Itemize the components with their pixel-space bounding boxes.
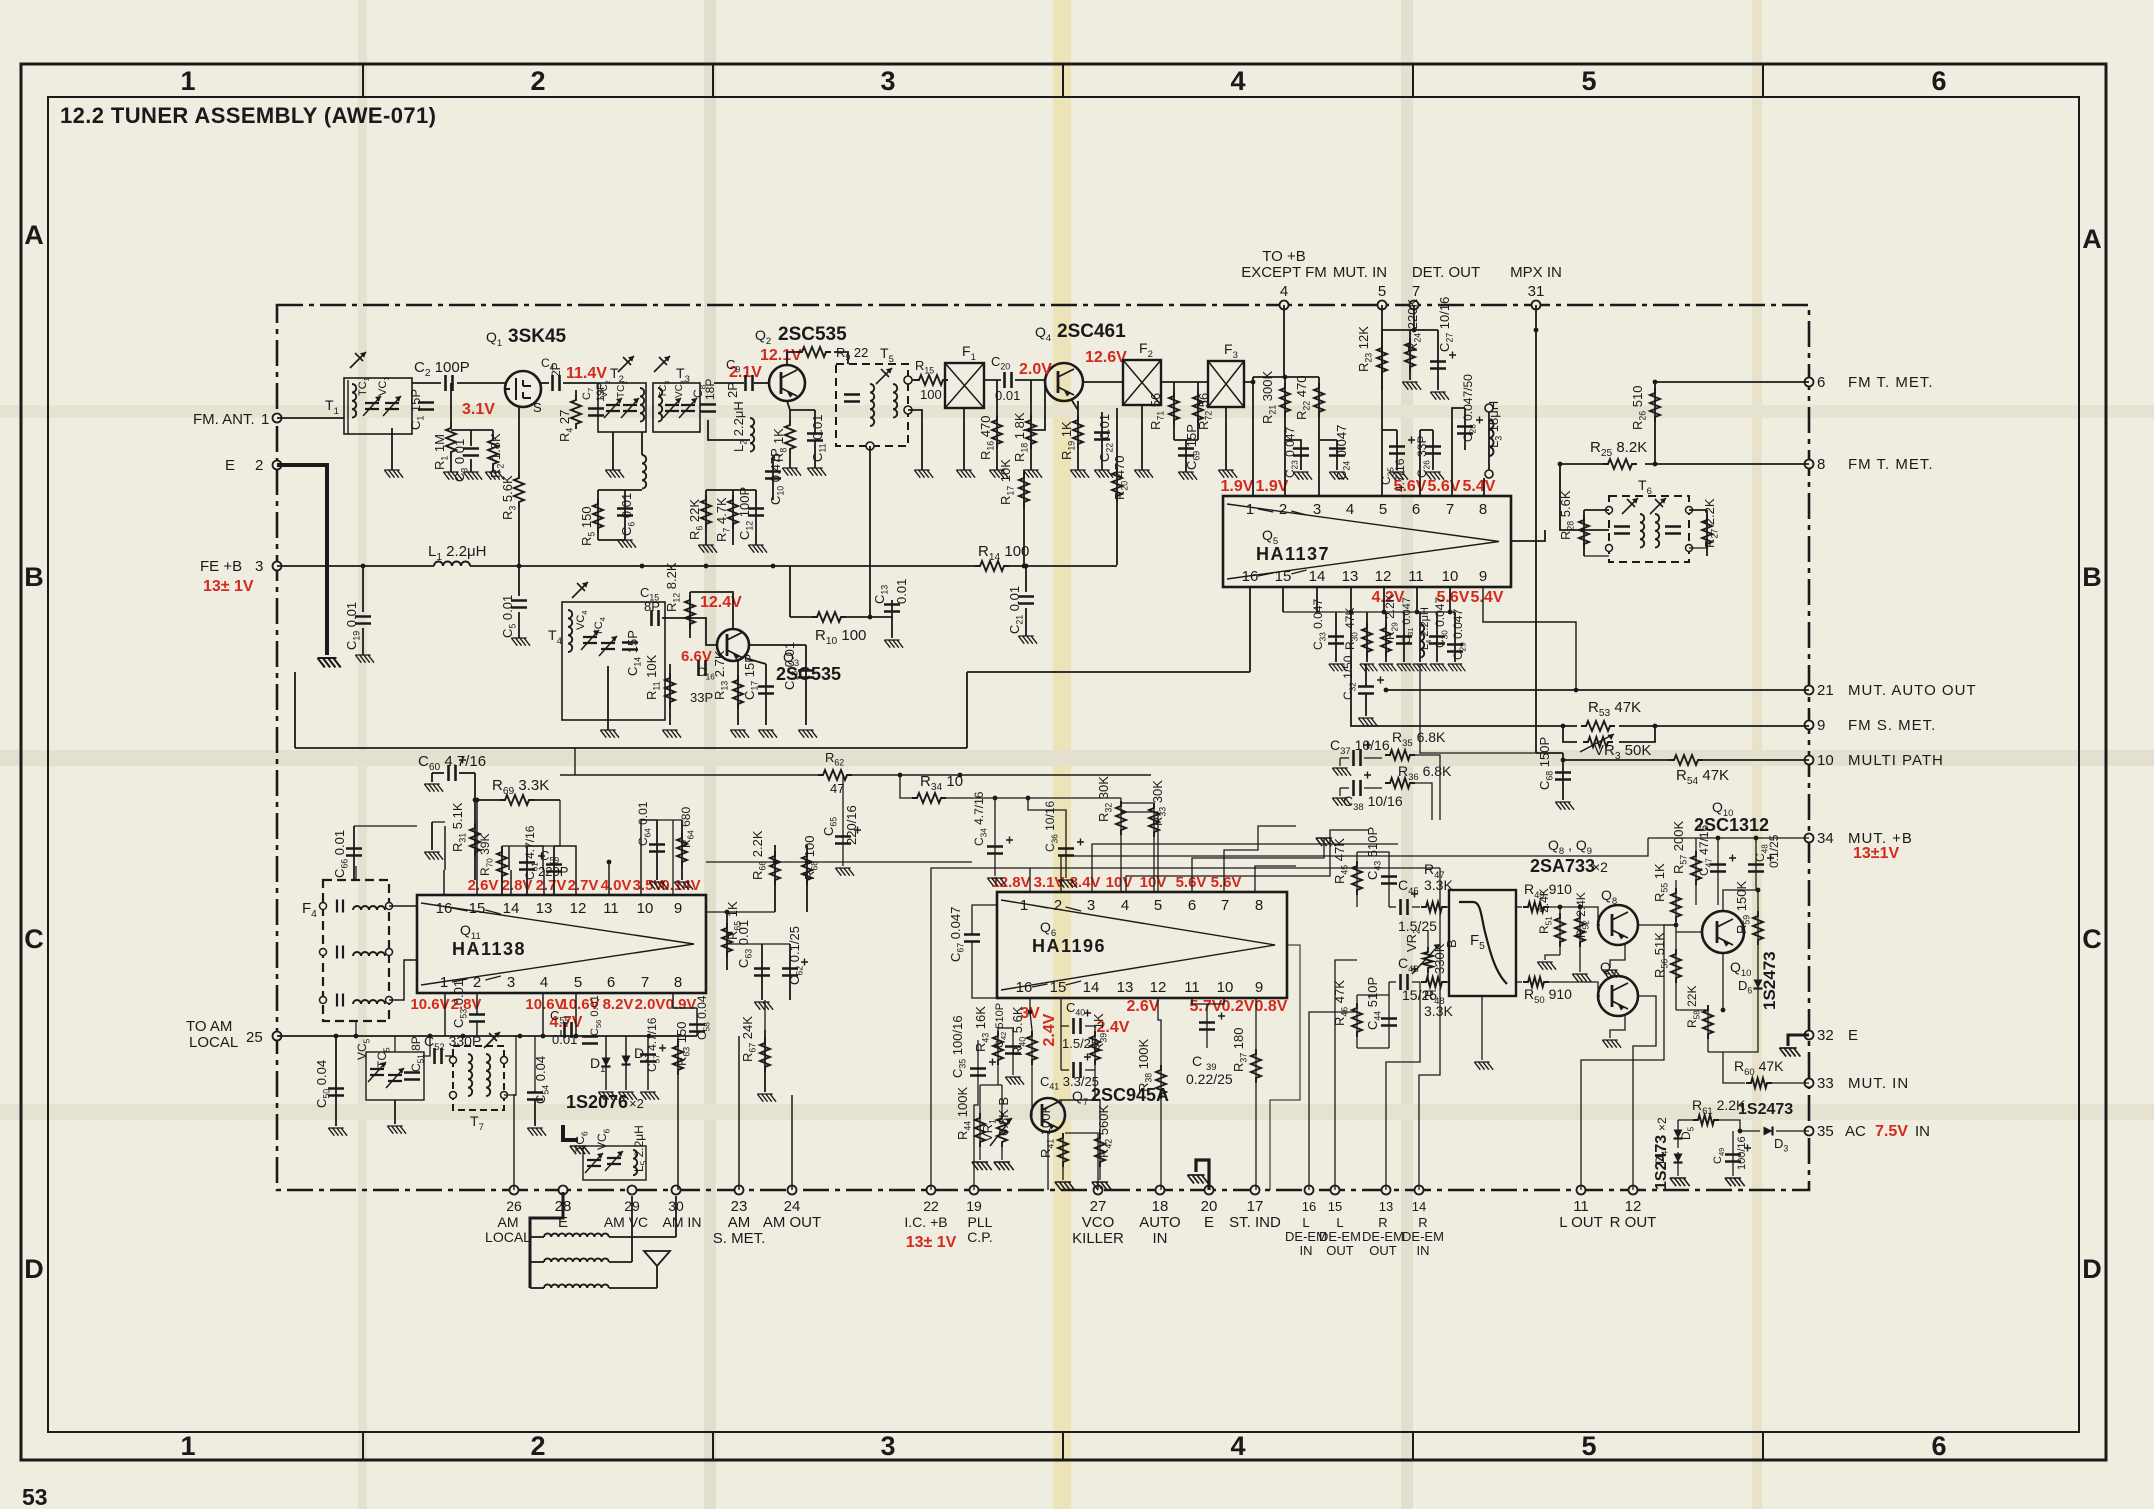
svg-text:4: 4 bbox=[1230, 1431, 1245, 1461]
T6 right cap bbox=[1665, 527, 1681, 534]
AM bar antenna coils bbox=[530, 1192, 563, 1288]
svg-text:0.2V: 0.2V bbox=[1222, 998, 1255, 1015]
svg-text:12: 12 bbox=[1375, 568, 1392, 585]
svg-text:E: E bbox=[1204, 1214, 1214, 1231]
capacitor C56 0.01 bbox=[582, 1037, 598, 1044]
resistor R60 47K bbox=[1746, 1078, 1772, 1088]
svg-text:6: 6 bbox=[607, 974, 615, 991]
capacitor C55 0.01 bbox=[565, 1022, 572, 1038]
wire pin7 stub bbox=[1224, 826, 1296, 892]
wire pin27 riser VCO killer bbox=[1065, 1133, 1098, 1190]
resistor R17 10K bbox=[1019, 473, 1029, 507]
resistor R35 6.8K bbox=[1385, 750, 1415, 760]
resistor R64 680 bbox=[677, 833, 687, 867]
svg-text:R7​ 4.7K: R7​ 4.7K bbox=[714, 497, 732, 542]
svg-text:19: 19 bbox=[966, 1198, 982, 1214]
capacitor C9 2P bbox=[746, 375, 753, 391]
ground under C69 bbox=[1178, 472, 1197, 480]
wires de-em cluster right bbox=[1415, 755, 1440, 820]
pin 7 DET OUT bbox=[1410, 301, 1419, 310]
T6 primary coil bbox=[1640, 514, 1644, 548]
pin 30 AM IN bbox=[672, 1186, 681, 1195]
svg-text:PLL: PLL bbox=[968, 1214, 993, 1230]
trimmer TC2 bbox=[623, 405, 637, 411]
wire pins 4,5 stubs to bus bbox=[542, 993, 544, 1036]
front-end enclosure bottom line bbox=[295, 747, 967, 749]
T6 secondary coil bbox=[1655, 514, 1659, 548]
svg-text:26: 26 bbox=[506, 1198, 522, 1214]
svg-text:33: 33 bbox=[1817, 1075, 1834, 1092]
wire R33 top bbox=[1121, 802, 1154, 804]
resistor R65 1K bbox=[722, 923, 732, 957]
wire R43/R44 join bbox=[980, 1084, 1002, 1086]
wire F4 top to C66 bbox=[355, 866, 357, 880]
wire R63 bottom long bbox=[677, 1098, 679, 1190]
wire R62 right bbox=[852, 774, 1151, 776]
wire R25 left into T6 bbox=[1560, 464, 1609, 530]
TO AM LOCAL bus bbox=[277, 1035, 697, 1037]
wire Q7 collector to R42 bbox=[1059, 1100, 1100, 1130]
ground under F2 bbox=[1141, 405, 1143, 470]
svg-text:2: 2 bbox=[1279, 501, 1287, 518]
T5 primary coil bbox=[870, 384, 874, 426]
transformer T3 bbox=[653, 383, 700, 432]
capacitor C35 100/16 bbox=[970, 1069, 986, 1076]
svg-text:15: 15 bbox=[1050, 979, 1067, 996]
svg-text:14: 14 bbox=[503, 900, 520, 917]
svg-text:2SA733: 2SA733 bbox=[1530, 856, 1595, 876]
svg-text:4: 4 bbox=[1346, 501, 1354, 518]
resistor R27 2.2K bbox=[1702, 515, 1712, 549]
svg-text:8.2V: 8.2V bbox=[603, 996, 634, 1013]
svg-text:14: 14 bbox=[1309, 568, 1326, 585]
svg-text:27: 27 bbox=[1090, 1198, 1107, 1215]
pin 23 AM S MET bbox=[735, 1186, 744, 1195]
wire R23/R24 top row bbox=[1382, 329, 1414, 331]
svg-text:HA1137: HA1137 bbox=[1256, 544, 1330, 564]
ground spur bbox=[431, 822, 433, 850]
svg-text:C18​ 0.01: C18​ 0.01 bbox=[782, 642, 800, 690]
wire C59 top bbox=[527, 800, 560, 846]
svg-text:2.6V: 2.6V bbox=[468, 877, 499, 894]
ground under C42 bbox=[1005, 1077, 1024, 1085]
wire C4 to T2 bbox=[563, 382, 598, 384]
resistor R16 470 bbox=[992, 415, 1002, 449]
svg-text:R37​ 180: R37​ 180 bbox=[1231, 1028, 1249, 1073]
ground under R52 bbox=[1572, 974, 1591, 982]
capacitor C23 0.047 bbox=[1293, 449, 1309, 456]
transistor Q7 2SC945A bbox=[1031, 1098, 1065, 1132]
resistor R15 100 bbox=[914, 375, 948, 385]
svg-text:C67​ 0.047: C67​ 0.047 bbox=[948, 907, 966, 962]
resistor R51 2.4K bbox=[1555, 913, 1565, 947]
ground under C23 bbox=[1293, 472, 1312, 480]
svg-text:FM. ANT.: FM. ANT. bbox=[193, 411, 255, 428]
IC Q5 HA1137 bbox=[1223, 496, 1511, 587]
svg-text:1S2473: 1S2473 bbox=[1738, 1101, 1793, 1118]
transistor Q3 2SC535 bbox=[717, 629, 749, 661]
wire HA1138 pin1 stub bbox=[444, 993, 446, 1036]
wire pin5 stub bbox=[1121, 812, 1158, 892]
wire F5 bottom to ground bbox=[1481, 996, 1483, 1060]
wire gate bias node bbox=[451, 429, 493, 431]
svg-text:ST. IND: ST. IND bbox=[1229, 1214, 1281, 1231]
svg-text:C41​ 3.3/25: C41​ 3.3/25 bbox=[1040, 1074, 1099, 1092]
svg-text:4: 4 bbox=[540, 974, 548, 991]
svg-text:C34​ 4.7/16: C34​ 4.7/16 bbox=[972, 791, 988, 846]
ground under C24 bbox=[1329, 472, 1348, 480]
filter F3 bbox=[1208, 361, 1244, 407]
resistor R18 1.8K bbox=[1026, 415, 1036, 449]
svg-text:C23​ 0.047: C23​ 0.047 bbox=[1283, 427, 1299, 478]
ground under D4 bbox=[1670, 1178, 1690, 1186]
capacitor C17 15P bbox=[758, 687, 774, 694]
svg-text:C68​ 150P: C68​ 150P bbox=[1537, 737, 1555, 790]
resistor R68 100 bbox=[802, 851, 812, 885]
svg-text:C31​ 0.047: C31​ 0.047 bbox=[1401, 597, 1415, 644]
svg-text:R38​ 100K: R38​ 100K bbox=[1136, 1039, 1154, 1092]
resistor R40 5.6K bbox=[1027, 1031, 1037, 1065]
svg-text:R70​ 39K: R70​ 39K bbox=[478, 834, 494, 876]
filter F4 (dashed block with elements) bbox=[323, 880, 389, 1021]
svg-text:R20​ 470: R20​ 470 bbox=[1112, 456, 1130, 501]
wire staircase 1 bbox=[1030, 868, 1440, 892]
capacitor C39 0.22/25 bbox=[1199, 1023, 1215, 1030]
pin 27 VCO KILLER bbox=[1094, 1186, 1103, 1195]
resistor R12 8.2K bbox=[685, 595, 695, 629]
resistor R13 2.7K bbox=[733, 675, 743, 709]
trimmer TC6 bbox=[587, 1160, 601, 1166]
capacitor C4 2P bbox=[553, 375, 560, 391]
svg-text:IN: IN bbox=[1915, 1123, 1930, 1140]
wire HA1137 right to T6 bbox=[1511, 530, 1545, 541]
svg-text:20: 20 bbox=[1201, 1198, 1218, 1215]
ground under R6 bbox=[698, 545, 717, 553]
svg-text:IN: IN bbox=[1153, 1230, 1168, 1247]
pin 10 MULTI PATH bbox=[1805, 756, 1814, 765]
resistor R20 470 bbox=[1112, 467, 1122, 501]
svg-text:D: D bbox=[2082, 1254, 2102, 1284]
capacitor C60 4.7/16 bbox=[449, 765, 456, 781]
capacitor C29 0.047 bbox=[1447, 645, 1463, 652]
svg-text:C: C bbox=[2082, 924, 2102, 954]
filter F5 (LPF block) bbox=[1449, 890, 1516, 996]
capacitor C16 33P bbox=[699, 660, 706, 676]
resistor R36 6.8K bbox=[1385, 778, 1415, 788]
wire C26 to pin6 bbox=[1420, 429, 1433, 431]
ground under cluster bbox=[394, 1100, 396, 1124]
wire pin12 stub bbox=[1191, 998, 1193, 1004]
svg-text:3.3K: 3.3K bbox=[1424, 1003, 1453, 1019]
svg-text:R9​ 22: R9​ 22 bbox=[836, 345, 868, 363]
pin 34 MUT +B bbox=[1805, 834, 1814, 843]
wire Q4 base node to R17 bbox=[1024, 382, 1045, 430]
svg-text:R43​ 16K: R43​ 16K bbox=[973, 1006, 991, 1052]
capacitor C45 1.5/25 bbox=[1401, 899, 1408, 915]
svg-text:1: 1 bbox=[261, 411, 269, 428]
svg-text:C14​ 15P: C14​ 15P bbox=[625, 630, 643, 676]
capacitor C41 3.3/25 bbox=[1074, 1062, 1081, 1078]
wire R45/C43 top bbox=[1357, 852, 1389, 855]
svg-text:7: 7 bbox=[1221, 897, 1229, 914]
ground under R24 bbox=[1402, 382, 1421, 390]
ground under C57 bbox=[640, 1092, 659, 1100]
wire F4 bottom bbox=[355, 1021, 357, 1036]
resistor R41 100K bbox=[1058, 1133, 1068, 1167]
capacitor C33 0.047 bbox=[1328, 637, 1344, 644]
svg-text:0.8V: 0.8V bbox=[1255, 998, 1288, 1015]
svg-text:53: 53 bbox=[22, 1484, 48, 1509]
svg-text:R59​ 150K: R59​ 150K bbox=[1734, 881, 1752, 934]
diode D4 bbox=[1674, 1154, 1683, 1163]
svg-text:C53​ 0.01: C53​ 0.01 bbox=[451, 980, 469, 1028]
svg-text:3: 3 bbox=[507, 974, 515, 991]
svg-text:LOCAL: LOCAL bbox=[189, 1034, 238, 1051]
svg-text:R68​ 100: R68​ 100 bbox=[802, 836, 820, 881]
svg-text:15: 15 bbox=[1328, 1199, 1342, 1214]
border tick marks top bbox=[362, 64, 364, 97]
ground under C29 bbox=[1448, 664, 1466, 671]
ground under R64 bbox=[674, 882, 693, 890]
pin 19 PLL CP bbox=[970, 1186, 979, 1195]
resistor R56 51K bbox=[1671, 949, 1681, 983]
svg-text:C12​ 100P: C12​ 100P bbox=[737, 487, 755, 540]
capacitor C64 0.01 bbox=[649, 845, 665, 852]
svg-text:8: 8 bbox=[1817, 456, 1825, 473]
svg-text:14: 14 bbox=[1083, 979, 1100, 996]
ground under R16 bbox=[989, 470, 1008, 478]
svg-text:C43​ 510P: C43​ 510P bbox=[1365, 827, 1383, 880]
T7 primary coil bbox=[468, 1054, 472, 1096]
wire R61 to D3 bbox=[1719, 1120, 1760, 1131]
svg-text:B: B bbox=[24, 562, 44, 592]
capacitor C34 4.7/16 bbox=[987, 847, 1003, 854]
filter F2 bbox=[1123, 360, 1161, 405]
trimmer TC1 bbox=[365, 403, 379, 409]
capacitor C10 0.47P bbox=[765, 472, 781, 479]
wire staircase 2 bbox=[1061, 856, 1420, 892]
resistor R31 5.1K bbox=[470, 823, 480, 857]
wire R60 node bbox=[1723, 1052, 1745, 1083]
svg-text:R51​ 2.4K: R51​ 2.4K bbox=[1537, 888, 1553, 934]
capacitor C31 0.047 bbox=[1396, 637, 1412, 644]
pin 29 AM VC bbox=[628, 1186, 637, 1195]
svg-text:A: A bbox=[2082, 224, 2102, 254]
capacitor C37 10/16 bbox=[1354, 750, 1361, 766]
wire R66/R68 top to bus bbox=[706, 861, 972, 863]
svg-text:2.0V: 2.0V bbox=[635, 996, 666, 1013]
ground under F3 bbox=[1225, 407, 1227, 470]
wire Q3 emitter row bbox=[745, 658, 766, 664]
resistor R43 16K bbox=[993, 1031, 1003, 1065]
svg-text:13± 1V: 13± 1V bbox=[203, 578, 254, 595]
svg-text:C27​ 10/16: C27​ 10/16 bbox=[1437, 297, 1455, 352]
svg-text:C44​ 510P: C44​ 510P bbox=[1365, 977, 1383, 1030]
svg-text:C51​ 8P: C51​ 8P bbox=[409, 1036, 425, 1072]
resistor R69 3.3K bbox=[500, 795, 534, 805]
resistor R59 150K bbox=[1753, 911, 1763, 945]
svg-text:7.5V: 7.5V bbox=[1875, 1123, 1908, 1140]
resistor R22 470 bbox=[1314, 383, 1324, 417]
transistor Q9 2SA733 bbox=[1598, 976, 1638, 1016]
grounds under Q3 bias bbox=[600, 730, 619, 738]
svg-text:5.6V: 5.6V bbox=[1428, 478, 1461, 495]
filter F1 bbox=[945, 363, 984, 408]
resistor R4 27 bbox=[571, 395, 581, 429]
pin 6 FM T MET bbox=[1805, 378, 1814, 387]
ground under C3 bbox=[470, 459, 472, 472]
svg-text:R1​ 1M: R1​ 1M bbox=[432, 434, 450, 470]
ground under C63 bbox=[754, 1002, 773, 1010]
pin 25 TO AM LOCAL bbox=[273, 1032, 282, 1041]
wire R28 to T6 bbox=[1584, 509, 1609, 511]
svg-text:12: 12 bbox=[1150, 979, 1167, 996]
pin 13 R DE-EM OUT bbox=[1382, 1186, 1391, 1195]
wire F2 to F3 via R71/R72 bbox=[1161, 381, 1208, 383]
svg-text:DE-EM: DE-EM bbox=[1362, 1229, 1404, 1244]
pin 11 L OUT bbox=[1577, 1186, 1586, 1195]
ground under C31 bbox=[1397, 664, 1415, 671]
svg-text:FM S. MET.: FM S. MET. bbox=[1848, 717, 1936, 734]
svg-text:B: B bbox=[1444, 939, 1459, 948]
wire R14 to R20 bbox=[1009, 565, 1117, 567]
svg-text:C32​ 1/50: C32​ 1/50 bbox=[1341, 655, 1357, 700]
ground under C12 bbox=[748, 545, 767, 553]
IC Q6 HA1196 bbox=[997, 892, 1287, 998]
inductor L4 2.2uH bbox=[1420, 624, 1424, 658]
svg-text:6.6V: 6.6V bbox=[681, 648, 712, 665]
wire R3 to FE+B bus bbox=[518, 507, 520, 566]
ground left of C38 bbox=[1339, 788, 1341, 796]
resistor R30 47K bbox=[1362, 623, 1372, 657]
wire MUT +B rail bbox=[1696, 837, 1809, 839]
svg-text:0.22/25: 0.22/25 bbox=[1186, 1071, 1233, 1087]
svg-text:DE-EM: DE-EM bbox=[1319, 1229, 1361, 1244]
svg-text:R23​ 12K: R23​ 12K bbox=[1356, 326, 1374, 372]
resistor R53 47K bbox=[1581, 721, 1615, 731]
svg-text:MUT. IN: MUT. IN bbox=[1848, 1075, 1909, 1092]
svg-text:3SK45: 3SK45 bbox=[508, 326, 567, 347]
ground under C5 bbox=[511, 638, 530, 646]
ground under R18 bbox=[1023, 470, 1042, 478]
svg-text:DET. OUT: DET. OUT bbox=[1412, 264, 1480, 281]
capacitor C47 47/16 bbox=[1710, 865, 1726, 872]
capacitor C51 8P bbox=[404, 1073, 420, 1080]
capacitor C50 0.04 bbox=[328, 1089, 344, 1096]
svg-text:C64​ 0.01: C64​ 0.01 bbox=[636, 801, 652, 846]
svg-text:MUT. AUTO OUT: MUT. AUTO OUT bbox=[1848, 682, 1977, 699]
wire L OUT riser bbox=[1581, 925, 1676, 1190]
ground under T2 bbox=[612, 432, 614, 470]
diode D3 bbox=[1764, 1127, 1773, 1136]
capacitor C67 0.047 bbox=[964, 935, 980, 942]
svg-text:L OUT: L OUT bbox=[1559, 1214, 1603, 1231]
wire pin20 ground bracket bbox=[1196, 1160, 1209, 1190]
capacitor C61 4.7/16 bbox=[519, 863, 535, 870]
svg-text:32: 32 bbox=[1817, 1027, 1834, 1044]
transformer T6 dashed box bbox=[1609, 496, 1689, 562]
resistor R58 22K bbox=[1703, 1005, 1713, 1039]
svg-text:R66​ 2.2K: R66​ 2.2K bbox=[750, 830, 768, 880]
svg-text:5: 5 bbox=[574, 974, 582, 991]
svg-text:5.7V: 5.7V bbox=[1190, 998, 1223, 1015]
trimmer TC5 bbox=[388, 1075, 402, 1081]
resistor R23 12K bbox=[1377, 343, 1387, 377]
capacitor C58 0.04 bbox=[689, 1025, 705, 1032]
node MPX riser bbox=[1534, 328, 1539, 333]
resistor R19 1K bbox=[1073, 415, 1083, 449]
capacitor C68 150P bbox=[1555, 773, 1571, 780]
capacitor C32 1/50 bbox=[1358, 687, 1374, 694]
IC Q11 HA1138 bbox=[417, 895, 706, 993]
svg-text:KILLER: KILLER bbox=[1072, 1230, 1124, 1247]
svg-text:11: 11 bbox=[1184, 979, 1200, 996]
svg-text:EXCEPT FM: EXCEPT FM bbox=[1241, 264, 1327, 281]
transistor Q1 3SK45 (MOSFET) bbox=[505, 371, 541, 407]
svg-text:0.01: 0.01 bbox=[894, 579, 909, 604]
svg-text:C50​ 0.04: C50​ 0.04 bbox=[314, 1060, 332, 1108]
svg-text:MULTI PATH: MULTI PATH bbox=[1848, 752, 1944, 769]
resistor R38 100K bbox=[1156, 1065, 1166, 1099]
wire R47 to F5 bbox=[1447, 906, 1449, 908]
svg-text:2SC461: 2SC461 bbox=[1057, 321, 1126, 342]
resistor R1 1M bbox=[446, 423, 456, 457]
ground under C25 bbox=[1389, 472, 1408, 480]
svg-text:22: 22 bbox=[923, 1198, 939, 1214]
trimmer TC4 bbox=[601, 643, 615, 649]
svg-text:9: 9 bbox=[674, 900, 682, 917]
wire C39 top to pin11 bbox=[1192, 998, 1207, 1004]
wire Q4 emitter to R19 bbox=[1071, 399, 1078, 410]
svg-text:0.01: 0.01 bbox=[552, 1032, 577, 1047]
capacitor C15 8P bbox=[652, 610, 659, 626]
resistor R46 47K bbox=[1352, 1003, 1362, 1037]
svg-text:R56​ 51K: R56​ 51K bbox=[1652, 932, 1670, 978]
inductor L1 2.2uH bbox=[434, 562, 470, 567]
ground left of C60 bbox=[431, 773, 433, 782]
resistor R39 1K bbox=[1090, 1031, 1100, 1065]
capacitor C63 0.01 bbox=[754, 969, 770, 976]
svg-text:220/16: 220/16 bbox=[844, 805, 859, 845]
wire Q10 base bbox=[1676, 931, 1702, 933]
pin 4 TO +B bbox=[1280, 301, 1289, 310]
svg-text:AUTO: AUTO bbox=[1139, 1214, 1180, 1231]
svg-text:R8​ 1K: R8​ 1K bbox=[771, 428, 789, 462]
wire MULTI PATH line bbox=[1536, 752, 1563, 754]
svg-text:6: 6 bbox=[1412, 501, 1420, 518]
svg-text:LOCAL: LOCAL bbox=[485, 1229, 531, 1245]
capacitor C25 4.7/16 bbox=[1389, 447, 1405, 454]
svg-text:C11​ 0.01: C11​ 0.01 bbox=[810, 415, 828, 462]
wire HA1137 pin9 to mut line bbox=[1483, 587, 1576, 690]
wire pin4 riser bbox=[1283, 305, 1285, 377]
ground under C50 bbox=[328, 1128, 347, 1136]
svg-text:FE +B: FE +B bbox=[200, 558, 242, 575]
svg-text:R41​ 100K: R41​ 100K bbox=[1038, 1105, 1056, 1158]
wire C28 to pin7 bbox=[1452, 408, 1465, 496]
svg-text:R2​ 1.8K: R2​ 1.8K bbox=[488, 433, 506, 478]
potentiometer VR1 6.8K B bbox=[1001, 1085, 1003, 1113]
FE +B bus wire right part bbox=[470, 565, 975, 567]
wire R38 top to pin13 bbox=[1158, 998, 1161, 1040]
svg-text:13: 13 bbox=[1379, 1199, 1393, 1214]
resistor R5 150 bbox=[593, 499, 603, 533]
transistor Q4 2SC461 bbox=[1045, 363, 1083, 401]
svg-text:FM T. MET.: FM T. MET. bbox=[1848, 456, 1934, 473]
svg-text:12.2 TUNER ASSEMBLY (AWE-071: 12.2 TUNER ASSEMBLY (AWE-071) bbox=[60, 103, 436, 128]
pin 3 FE +B bbox=[273, 562, 282, 571]
svg-text:×2: ×2 bbox=[1655, 1117, 1669, 1131]
